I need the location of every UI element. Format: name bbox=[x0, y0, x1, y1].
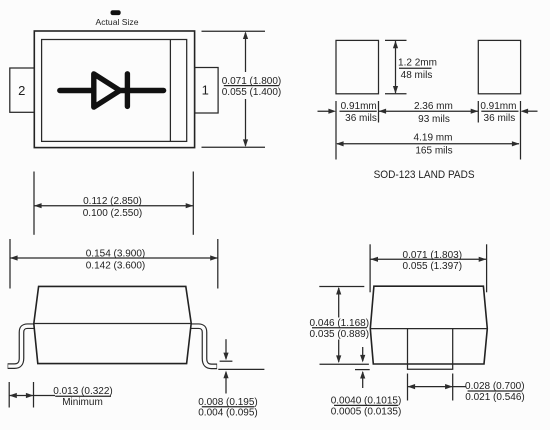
dim 0.008: bottom ref line bbox=[218, 368, 264, 370]
dim 0.028: ext line left bbox=[407, 374, 409, 401]
overall pad dim 4.19mm arrow bbox=[337, 143, 519, 145]
dim underline bbox=[224, 85, 279, 87]
dim 0.013 ext line left bbox=[8, 382, 10, 408]
svg-text:93 mils: 93 mils bbox=[418, 114, 450, 125]
pad row dim: ext line far-right bbox=[520, 101, 522, 160]
svg-text:0.035 (0.889): 0.035 (0.889) bbox=[310, 329, 370, 340]
arrowhead up bbox=[243, 31, 248, 39]
dim 0.071/0.055 height: bottom extension line bbox=[202, 146, 266, 148]
svg-text:SOD-123 LAND PADS: SOD-123 LAND PADS bbox=[374, 169, 475, 181]
svg-text:165 mils: 165 mils bbox=[415, 146, 452, 157]
dim 0.013 arrow line + leader bbox=[9, 395, 55, 397]
side view: parting line bbox=[34, 323, 191, 325]
dim 0.008: top tick bbox=[220, 360, 233, 362]
dim 0.154 ext line left bbox=[9, 239, 11, 289]
standoff dim: lower arrow bbox=[362, 372, 364, 388]
dim 0.112 ext line right bbox=[192, 172, 194, 235]
dim 0.028: ext line right bbox=[452, 374, 454, 401]
dim 0.008: upper arrow bbox=[225, 339, 227, 358]
svg-text:0.100 (2.550): 0.100 (2.550) bbox=[83, 208, 143, 219]
arrowhead down bbox=[393, 86, 398, 94]
dim 0.071/0.055 height: arrow line upper bbox=[245, 33, 247, 72]
dim 0.046: top tick bbox=[319, 286, 364, 288]
dim 0.154 ext line right bbox=[217, 239, 219, 289]
top view: cathode band line bbox=[169, 40, 171, 142]
svg-text:0.91mm: 0.91mm bbox=[480, 101, 516, 112]
pad row dim: ext line far-left bbox=[335, 101, 337, 160]
end view: dim 0.071 ext left bbox=[369, 244, 371, 292]
diode symbol: anode line bbox=[60, 88, 164, 93]
arrowhead up bbox=[393, 41, 398, 49]
dim 0.154 arrow line bbox=[10, 257, 218, 259]
svg-text:0.112 (2.850): 0.112 (2.850) bbox=[83, 196, 142, 207]
outside arrow left bbox=[318, 110, 335, 112]
land pad left bbox=[336, 40, 379, 93]
fraction bar bbox=[399, 67, 432, 69]
land pad right bbox=[478, 40, 520, 93]
fraction bar 0.91mm right bbox=[481, 110, 518, 112]
svg-text:4.19 mm: 4.19 mm bbox=[414, 133, 453, 144]
pad height dim: arrow line bbox=[395, 41, 397, 93]
side view: left gull-wing lead outline bbox=[8, 326, 37, 366]
svg-text:36 mils: 36 mils bbox=[484, 113, 516, 124]
pad row dim: ext line left-inner bbox=[378, 101, 380, 123]
svg-text:1.2 2mm: 1.2 2mm bbox=[398, 58, 437, 69]
svg-text:0.91mm: 0.91mm bbox=[341, 101, 377, 112]
dim 0.071/0.055 height: arrow line lower bbox=[245, 99, 247, 146]
terminal 1 tab bbox=[195, 68, 218, 114]
diode symbol: triangle bbox=[94, 74, 120, 107]
end view: dim 0.071 ext right bbox=[486, 244, 488, 292]
diode symbol: cathode bar bbox=[125, 74, 130, 107]
svg-text:48 mils: 48 mils bbox=[401, 70, 433, 81]
middle arrow line 2.36 bbox=[379, 110, 479, 112]
dim 0.046: lower arrow bbox=[338, 340, 340, 362]
outside arrow right bbox=[523, 110, 538, 112]
svg-text:0.055 (1.397): 0.055 (1.397) bbox=[403, 261, 463, 272]
svg-text:0.142 (3.600): 0.142 (3.600) bbox=[86, 261, 146, 272]
svg-text:0.071 (1.803): 0.071 (1.803) bbox=[403, 250, 463, 261]
terminal 2 tab bbox=[10, 68, 35, 112]
side view: right gull-wing lead outline bbox=[188, 326, 217, 366]
arrowhead down bbox=[243, 139, 248, 147]
dim 0.008: lower arrow bbox=[225, 372, 227, 393]
svg-text:2: 2 bbox=[18, 83, 25, 98]
end view: lead tab bbox=[408, 329, 453, 370]
end view: body outline bbox=[370, 286, 487, 364]
svg-text:0.021 (0.546): 0.021 (0.546) bbox=[465, 392, 525, 403]
svg-text:0.004 (0.095): 0.004 (0.095) bbox=[198, 408, 258, 419]
standoff dim: body-bottom ref line bbox=[320, 363, 369, 365]
top view: outer body rect bbox=[34, 31, 194, 148]
dim 0.112 arrow line bbox=[34, 205, 193, 207]
dim 0.013 ext line right bbox=[33, 382, 35, 408]
dim 0.112 ext line left bbox=[33, 172, 35, 235]
pad height dim: top tick bbox=[385, 39, 407, 41]
end view: shoulder line bbox=[370, 328, 487, 330]
end view: dim 0.071 arrow line bbox=[370, 258, 487, 260]
pad row dim: ext line right-inner bbox=[477, 101, 479, 123]
fraction bar 0.91mm left bbox=[340, 110, 377, 112]
svg-text:0.055 (1.400): 0.055 (1.400) bbox=[222, 87, 282, 98]
svg-text:Minimum: Minimum bbox=[62, 397, 103, 408]
svg-text:36 mils: 36 mils bbox=[345, 113, 377, 124]
svg-text:0.0005 (0.0135): 0.0005 (0.0135) bbox=[331, 406, 402, 417]
dim 0.028: arrow line + leader bbox=[408, 386, 467, 388]
actual size chip mark bbox=[111, 10, 121, 15]
standoff dim: lower tick bbox=[355, 369, 370, 371]
svg-text:0.013 (0.322): 0.013 (0.322) bbox=[53, 386, 113, 397]
svg-text:1: 1 bbox=[202, 82, 209, 97]
side view: body outline bbox=[34, 286, 191, 363]
svg-text:Actual Size: Actual Size bbox=[96, 17, 139, 27]
svg-text:2.36 mm: 2.36 mm bbox=[414, 101, 453, 112]
svg-text:0.154 (3.900): 0.154 (3.900) bbox=[86, 249, 146, 260]
pad height dim: bottom tick bbox=[385, 93, 407, 95]
dim 0.046: upper arrow bbox=[338, 288, 340, 318]
dim 0.071/0.055 height: top extension line bbox=[202, 30, 266, 32]
standoff dim: upper arrow bbox=[362, 347, 364, 361]
top view: inner body rect bbox=[42, 40, 187, 142]
